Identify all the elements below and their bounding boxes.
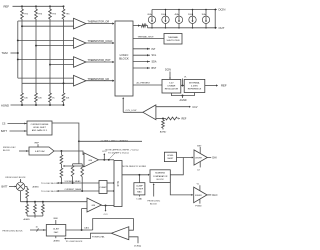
op-amp GMV — [84, 153, 99, 167]
svg-text:REGULATOR: REGULATOR — [165, 87, 179, 90]
dac D2 10-BIT DAC — [46, 225, 66, 237]
junction tap3 — [49, 64, 51, 66]
svg-text:10UA: 10UA — [161, 13, 167, 16]
svg-text:INTERNAL: INTERNAL — [189, 81, 201, 84]
signal from logic (summing) — [153, 184, 155, 197]
svg-text:TO 3/4 REF = Vsense: TO 3/4 REF = Vsense — [108, 153, 130, 155]
wire DACI — [66, 229, 93, 231]
thermal shutdown block — [164, 34, 182, 45]
multiplier M1 — [16, 182, 25, 191]
junction AGND rail — [21, 104, 23, 106]
junction DCIN rail — [178, 9, 180, 11]
bus width marker 10 — [37, 228, 39, 231]
pin PGND — [199, 199, 201, 203]
svg-text:LEVEL SHIFT: LEVEL SHIFT — [33, 127, 47, 129]
driver DLO — [194, 187, 207, 203]
resistor to AGND — [162, 119, 164, 120]
svg-text:AGND: AGND — [180, 99, 187, 102]
svg-text:AGND: AGND — [33, 185, 40, 188]
svg-text:DAC: DAC — [54, 231, 59, 234]
wire REF rail — [13, 5, 64, 7]
wire CS amp output — [52, 123, 79, 141]
svg-text:CCI: CCI — [104, 214, 108, 216]
wire divider tap column — [21, 19, 23, 93]
reference block — [184, 79, 205, 92]
svg-text:POWER_FAIL: POWER_FAIL — [92, 236, 106, 239]
wire comparator - input row — [22, 25, 74, 27]
divider chain A upper — [60, 151, 62, 155]
wire THERMISTOR_COLD output — [86, 42, 114, 44]
wire divider tap column — [63, 19, 65, 93]
svg-text:MAX: MAX — [137, 191, 142, 194]
wire clamp to mux i — [107, 190, 114, 192]
level shift block — [164, 152, 176, 161]
svg-text:4UA: 4UA — [175, 13, 180, 16]
wire CCV input — [156, 106, 190, 108]
wire CCV_LOW to logic — [122, 98, 124, 113]
junction on REF rail — [63, 5, 65, 7]
svg-text:REF: REF — [4, 5, 10, 9]
svg-text:THERMAL_SHUT: THERMAL_SHUT — [138, 35, 155, 38]
signal VOLTAGE_MEAS to logic — [58, 182, 100, 184]
signal SDA — [133, 61, 150, 63]
svg-text:GM: GM — [89, 160, 93, 162]
signal CURRENT_MEAS to logic — [58, 190, 100, 192]
svg-text:AC_PRESENT: AC_PRESENT — [137, 82, 151, 85]
svg-text:BLOCK: BLOCK — [3, 150, 10, 152]
svg-text:5.4V: 5.4V — [169, 82, 174, 84]
svg-text:LINEAR: LINEAR — [167, 84, 175, 87]
wire comparator + input row — [18, 20, 74, 22]
svg-text:4.096V: 4.096V — [191, 85, 198, 87]
wire THERMISTOR_UR output — [86, 80, 114, 82]
svg-text:COMPARATOR: COMPARATOR — [153, 175, 168, 178]
wire comparator + input row — [18, 77, 74, 79]
svg-text:REF: REF — [54, 218, 59, 220]
clamp block — [99, 181, 107, 194]
comparator THERMISTOR_HOT — [74, 57, 87, 68]
resistor voltage meas — [72, 164, 74, 166]
svg-text:LEVEL: LEVEL — [167, 155, 174, 157]
junction tap1 — [21, 25, 23, 27]
wire DHI output — [207, 157, 211, 159]
wire comparator - input row — [50, 64, 74, 66]
wire clamp to mux v — [107, 182, 114, 184]
svg-text:SCL: SCL — [152, 54, 157, 57]
wire GMI input bus — [21, 201, 88, 203]
linear regulator block — [162, 79, 181, 93]
svg-text:BLOCK: BLOCK — [150, 204, 157, 206]
resistor bias — [141, 24, 146, 27]
svg-text:AGND: AGND — [160, 131, 167, 134]
svg-text:DRIVER: DRIVER — [195, 157, 202, 159]
svg-text:CURRENT-SENSE: CURRENT-SENSE — [31, 124, 49, 126]
wire CS node right — [79, 140, 142, 142]
wire DCIN divider input — [129, 237, 138, 243]
current source 1UA — [202, 16, 209, 23]
clamp-to-ref block — [138, 175, 140, 183]
svg-text:AGND: AGND — [54, 239, 61, 242]
svg-text:REF: REF — [182, 118, 187, 121]
wire comparator + input row — [18, 39, 74, 41]
svg-text:SUMMING: SUMMING — [155, 173, 165, 175]
junction DCIN rail — [165, 9, 167, 11]
svg-text:BATT: BATT — [2, 186, 8, 189]
wire DCIN rail — [152, 9, 216, 11]
svg-text:LOAD: LOAD — [137, 198, 143, 201]
svg-text:CCV: CCV — [192, 106, 197, 109]
junction bus — [42, 201, 44, 203]
svg-text:DLO: DLO — [212, 194, 217, 197]
wire POWER_FAIL output — [65, 233, 111, 238]
resistor current meas — [81, 164, 83, 166]
signal AC_PRESENT — [133, 84, 162, 86]
svg-text:TO LOGIC BLOCK: TO LOGIC BLOCK — [41, 191, 59, 193]
junction bus — [26, 201, 28, 203]
op-amp GMI — [87, 198, 101, 212]
wire rail connector — [214, 10, 216, 28]
svg-text:SDA: SDA — [152, 61, 157, 64]
junction AGND rail — [63, 104, 65, 106]
junction on REF rail — [49, 5, 51, 7]
svg-text:THERMISTOR_COLD: THERMISTOR_COLD — [88, 40, 113, 43]
svg-text:AGND: AGND — [24, 218, 31, 221]
resistor cell divider — [42, 202, 44, 205]
wire comparator - input row — [22, 82, 74, 84]
driver DHI — [194, 150, 207, 165]
svg-text:6UA: 6UA — [148, 13, 153, 16]
resistor cell divider — [34, 202, 36, 205]
svg-text:DRIVER: DRIVER — [195, 195, 202, 197]
svg-text:REF: REF — [35, 143, 40, 145]
svg-text:AGND: AGND — [1, 103, 9, 107]
svg-text:BST: BST — [152, 67, 157, 70]
wire DLO output — [207, 194, 211, 196]
mux block — [114, 161, 122, 207]
svg-text:DHI: DHI — [212, 157, 216, 160]
pin LX — [199, 162, 201, 168]
svg-text:THERMISTOR_OR: THERMISTOR_OR — [88, 21, 110, 24]
svg-text:SHIFT: SHIFT — [167, 158, 174, 160]
svg-text:1UA: 1UA — [202, 13, 207, 16]
wire THERMAL_SHUT — [133, 38, 164, 40]
svg-text:INT: INT — [152, 48, 156, 51]
resistor TR2 (top divider) — [21, 6, 23, 9]
svg-text:DCIN(s): DCIN(s) — [134, 245, 142, 247]
resistor multiplier load — [26, 187, 28, 189]
junction tap2 — [35, 45, 37, 47]
signal BST — [133, 67, 150, 69]
junction DCIN rail — [192, 9, 194, 11]
current source 10UA — [162, 16, 169, 23]
svg-text:CCV_LOW: CCV_LOW — [126, 110, 138, 112]
svg-text:TO LOGIC BLOCK: TO LOGIC BLOCK — [66, 241, 84, 243]
wire GMV output — [99, 159, 115, 161]
wire summing to DLO — [170, 182, 192, 195]
current source 6UA — [148, 16, 155, 23]
wire multiplier out down — [20, 191, 22, 202]
svg-text:AND GAIN OF 5: AND GAIN OF 5 — [32, 129, 48, 132]
wire AGND rail — [11, 104, 64, 106]
svg-text:THERMISTOR_UR: THERMISTOR_UR — [88, 78, 110, 81]
wire divider tap column — [49, 19, 51, 93]
wire VL node — [181, 85, 184, 87]
wire GMI - input — [82, 208, 87, 210]
logic block U1 — [115, 21, 133, 96]
wire THERMISTOR_HOT output — [86, 61, 114, 63]
node AGND (10-bit dac) — [55, 236, 57, 238]
wire dac to comparator loop — [93, 219, 134, 231]
junction tap4 — [63, 82, 65, 84]
wire multiplier out right — [25, 186, 27, 188]
svg-text:NOTE: APPROX. REF/R + Vsense: NOTE: APPROX. REF/R + Vsense — [106, 149, 140, 152]
wire MUX output — [122, 174, 149, 176]
current-sense level shift block — [27, 121, 52, 135]
svg-text:BST: BST — [197, 145, 202, 147]
svg-text:THERMAL: THERMAL — [168, 36, 179, 39]
svg-text:TO REF: TO REF — [136, 189, 144, 191]
junction DCIN rail — [205, 9, 207, 11]
svg-text:6-BIT DAC: 6-BIT DAC — [35, 150, 46, 153]
svg-text:GM: GM — [92, 205, 96, 207]
svg-text:SHUTDOWN: SHUTDOWN — [167, 40, 180, 42]
signal SCL — [133, 54, 150, 56]
wire OUT rail — [148, 27, 217, 29]
svg-text:VOLTAGE_MEAS: VOLTAGE_MEAS — [65, 180, 82, 183]
wire DAC output to GMV — [54, 151, 84, 155]
svg-text:REFERENCE: REFERENCE — [188, 88, 202, 90]
comparator CCV_LOW — [143, 105, 156, 120]
comparator THERMISTOR_OR — [74, 18, 87, 29]
svg-text:CURRENT_MEAS: CURRENT_MEAS — [65, 188, 82, 191]
svg-text:20UA: 20UA — [188, 13, 194, 16]
signal INT — [133, 48, 150, 50]
pin CCI — [105, 206, 107, 211]
resistor to REF — [166, 117, 178, 120]
svg-text:OUT: OUT — [219, 26, 225, 30]
junction THM column — [17, 58, 19, 60]
comparator POWER_FAIL — [111, 227, 129, 240]
wire resistor commons — [27, 215, 43, 217]
svg-text:REF: REF — [221, 84, 227, 88]
wire THM sense column — [17, 21, 19, 78]
pin CCV (gmv) — [103, 154, 105, 160]
dac D1 6-BIT DAC — [29, 147, 54, 155]
wiper to GMV input — [63, 165, 84, 167]
current source 4UA — [175, 16, 182, 23]
wire THERMISTOR_OR output — [86, 23, 114, 25]
note leader line — [110, 153, 116, 159]
junction on REF rail — [35, 5, 37, 7]
wire level shift out — [177, 157, 193, 159]
svg-text:DACI: DACI — [84, 227, 89, 230]
svg-text:MUX: MUX — [116, 181, 119, 187]
resistor cell divider — [26, 202, 28, 205]
wire logic bias feed — [133, 25, 141, 27]
junction on REF rail — [21, 5, 23, 7]
resistor TR5 (top divider) — [63, 6, 65, 9]
wire divider tap column — [35, 19, 37, 93]
resistor 1K (bottom divider) — [49, 93, 52, 102]
comparator THERMISTOR_COLD — [74, 38, 87, 49]
svg-text:THM: THM — [2, 51, 9, 55]
divider chain A lower — [60, 164, 62, 168]
comparator THERMISTOR_UR — [74, 75, 87, 86]
svg-text:10-BIT: 10-BIT — [53, 228, 60, 230]
svg-text:BATT: BATT — [1, 130, 7, 133]
svg-text:FROM LOGIC BLOCK: FROM LOGIC BLOCK — [3, 230, 24, 232]
junction THM column — [17, 39, 19, 41]
current source 20UA — [189, 16, 196, 23]
svg-text:NOTE: REF/4 TO 3/4 REF: NOTE: REF/4 TO 3/4 REF — [123, 166, 147, 168]
resistor 10K (bottom divider) — [21, 93, 24, 102]
junction bus — [34, 201, 36, 203]
wire comparator - input row — [36, 45, 74, 47]
svg-text:2.6 REF = ZERO CURRENT: 2.6 REF = ZERO CURRENT — [101, 141, 129, 143]
svg-text:BLOCK: BLOCK — [157, 179, 165, 181]
svg-text:PGND: PGND — [195, 206, 202, 208]
svg-text:CLAMP: CLAMP — [100, 186, 108, 189]
summing comparator block — [150, 170, 170, 183]
junction AGND rail — [49, 104, 51, 106]
wire GMI output — [101, 205, 114, 207]
svg-text:CLAMP: CLAMP — [136, 185, 144, 188]
svg-text:TO LOGIC BLOCK: TO LOGIC BLOCK — [41, 183, 59, 185]
svg-text:THERMISTOR_HOT: THERMISTOR_HOT — [88, 59, 112, 62]
wire REF divider input — [156, 118, 166, 120]
svg-text:DCIN: DCIN — [219, 8, 226, 12]
wire summing out to DHI — [170, 158, 183, 175]
wire meas divider feed — [78, 141, 80, 164]
svg-text:CS: CS — [2, 123, 6, 126]
junction AGND rail — [35, 104, 37, 106]
svg-text:BLOCK: BLOCK — [119, 57, 129, 61]
svg-text:FROM LOGIC BLOCK: FROM LOGIC BLOCK — [6, 177, 27, 179]
svg-text:FROM LOGIC: FROM LOGIC — [3, 147, 16, 149]
wire regulator grounds — [171, 93, 194, 96]
svg-text:FROM LOGIC: FROM LOGIC — [148, 201, 161, 203]
svg-text:DCIN: DCIN — [165, 69, 171, 72]
resistor 10K (bottom divider) — [35, 93, 38, 102]
resistor TR3 (top divider) — [49, 6, 51, 9]
resistor TR6 (top divider) — [35, 6, 37, 9]
resistor 10K (bottom divider) — [62, 93, 65, 102]
wire REF output — [205, 85, 217, 87]
wire comparator + input row — [18, 58, 74, 60]
